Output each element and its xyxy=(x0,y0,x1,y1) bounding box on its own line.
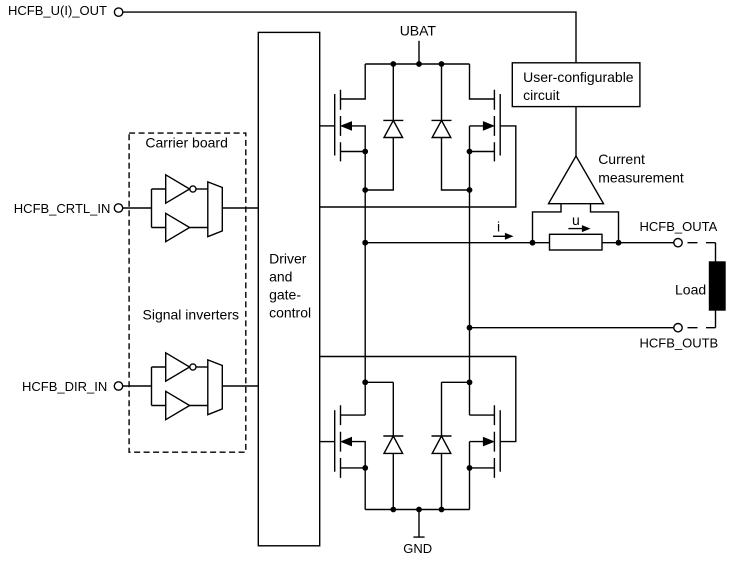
wire lower drain rail left xyxy=(365,381,393,383)
svg-text:u: u xyxy=(572,212,580,228)
wire splitter 1 xyxy=(152,189,166,228)
wire UBAT stub xyxy=(418,41,420,64)
wire left bridge leg xyxy=(364,152,366,416)
buffer G4 xyxy=(166,391,190,419)
transistor Q2 body arrow xyxy=(484,122,494,130)
mux M1 xyxy=(208,182,223,237)
wire mux2 to driver box xyxy=(222,385,258,387)
svg-text:Driver: Driver xyxy=(269,251,307,267)
node GND-D4 xyxy=(439,507,445,513)
user-configurable circuit box U1 xyxy=(512,63,640,107)
driver and gate-control box U2 xyxy=(258,32,319,545)
transistor Q1 body arrow xyxy=(342,122,352,130)
svg-text:control: control xyxy=(269,305,311,321)
transistor Q3 body arrow xyxy=(342,438,352,446)
node HCFB_OUTB terminal xyxy=(674,324,682,332)
transistor Q2 drain wire xyxy=(470,64,495,99)
transistor Q1 gate stub xyxy=(320,125,335,127)
diode D2 xyxy=(432,64,470,190)
op-amp current measurement A1 xyxy=(549,156,604,204)
svg-text:circuit: circuit xyxy=(523,87,560,103)
transistor Q1 channel xyxy=(340,90,342,162)
node UBAT-D1 xyxy=(390,61,396,67)
node HCFB_OUTA terminal xyxy=(674,239,682,247)
wire dashed OUTA to load xyxy=(688,242,716,244)
wire splitter 2 xyxy=(152,367,166,406)
node shunt left xyxy=(530,240,536,246)
wire Q4 source to gnd rail xyxy=(469,468,471,510)
svg-text:HCFB_OUTA: HCFB_OUTA xyxy=(640,219,718,234)
node shunt right xyxy=(616,240,622,246)
svg-text:Carrier board: Carrier board xyxy=(145,135,227,151)
node HCFB_U(I)_OUT terminal xyxy=(114,8,122,16)
wire load top xyxy=(715,243,717,262)
node Q2 source xyxy=(467,149,473,155)
wire user box to current-measurement amp xyxy=(575,107,577,156)
svg-text:HCFB_U(I)_OUT: HCFB_U(I)_OUT xyxy=(8,3,107,18)
node A-Q3 drain xyxy=(362,379,368,385)
transistor Q4 channel xyxy=(493,405,495,478)
diode D1 xyxy=(365,64,403,190)
wire GND rail xyxy=(365,509,469,511)
wire node B to HCFB_OUTB terminal xyxy=(470,327,674,329)
node GND-D3 xyxy=(390,507,396,513)
svg-text:and: and xyxy=(269,269,292,285)
node Q3 source xyxy=(362,465,368,471)
arrow u xyxy=(568,228,585,230)
transistor Q3 source-body wire xyxy=(341,442,366,468)
arrow i xyxy=(493,235,507,237)
resistor R-shunt xyxy=(550,234,603,250)
node B-D2 xyxy=(467,187,473,193)
svg-text:HCFB_DIR_IN: HCFB_DIR_IN xyxy=(22,379,107,394)
wire node A to shunt xyxy=(365,242,549,244)
transistor Q4 drain wire xyxy=(470,414,495,416)
svg-text:Signal inverters: Signal inverters xyxy=(143,307,240,323)
wire DIR_IN input xyxy=(123,385,152,387)
wire shunt to HCFB_OUTA terminal xyxy=(602,242,674,244)
transistor Q1 drain wire xyxy=(341,64,366,99)
node HCFB_DIR_IN terminal xyxy=(114,382,122,390)
svg-text:User-configurable: User-configurable xyxy=(523,69,634,85)
transistor Q3 gate xyxy=(334,410,336,472)
svg-text:Current: Current xyxy=(598,151,645,167)
wire mux1 to driver box xyxy=(222,207,258,209)
mux M2 xyxy=(208,360,223,415)
svg-text:HCFB_CRTL_IN: HCFB_CRTL_IN xyxy=(14,201,111,216)
ground xyxy=(413,510,424,538)
transistor Q4 body arrow xyxy=(484,438,494,446)
transistor Q2 gate xyxy=(499,94,501,156)
wire right bridge leg xyxy=(469,152,471,416)
node A-D1 xyxy=(362,187,368,193)
wire Q3 source to gnd rail xyxy=(364,468,366,510)
node A shunt line xyxy=(362,240,368,246)
transistor Q1 gate xyxy=(334,94,336,156)
svg-text:measurement: measurement xyxy=(598,169,684,185)
node UBAT-D2 xyxy=(439,61,445,67)
svg-text:UBAT: UBAT xyxy=(400,23,437,39)
transistor Q2 channel xyxy=(493,90,495,162)
node Q4 source xyxy=(467,465,473,471)
node HCFB_CRTL_IN terminal xyxy=(114,204,122,212)
wire lower drain rail right xyxy=(442,381,470,383)
svg-text:i: i xyxy=(497,219,500,235)
diode D4 xyxy=(432,382,452,509)
wire dashed OUTB to load xyxy=(688,327,716,329)
wire UBAT rail xyxy=(365,63,469,65)
node Q1 source xyxy=(362,149,368,155)
wire Q4 gate to driver xyxy=(320,357,516,442)
wire sense right xyxy=(591,204,619,243)
dashed carrier board boundary xyxy=(129,133,246,452)
svg-text:GND: GND xyxy=(403,541,432,556)
node B-Q4 drain xyxy=(467,379,473,385)
node UBAT stub xyxy=(416,61,422,67)
transistor Q4 gate xyxy=(499,410,501,472)
transistor Q3 drain wire xyxy=(341,414,366,416)
svg-text:Load: Load xyxy=(675,282,706,298)
svg-text:gate-: gate- xyxy=(269,287,301,303)
load RL xyxy=(710,262,726,310)
transistor Q3 channel xyxy=(340,405,342,478)
transistor Q1 source-body wire xyxy=(341,126,366,152)
transistor Q3 gate stub xyxy=(320,441,335,443)
diode D3 xyxy=(383,382,403,509)
transistor Q2 source-body wire xyxy=(470,126,495,152)
node B OUTB line xyxy=(467,325,473,331)
node GND stub xyxy=(416,507,422,513)
wire sense left xyxy=(533,204,562,243)
wire CRTL_IN input xyxy=(123,207,152,209)
buffer G2 xyxy=(166,213,190,241)
inverter G3 xyxy=(166,353,190,381)
inverter G1 xyxy=(166,175,190,203)
wire HCFB_U(I)_OUT to user-configurable circuit xyxy=(123,12,576,63)
transistor Q4 source-body wire xyxy=(470,442,495,468)
wire Q2 gate to driver xyxy=(320,126,516,207)
wire load bottom xyxy=(715,310,717,328)
svg-text:HCFB_OUTB: HCFB_OUTB xyxy=(640,335,719,350)
